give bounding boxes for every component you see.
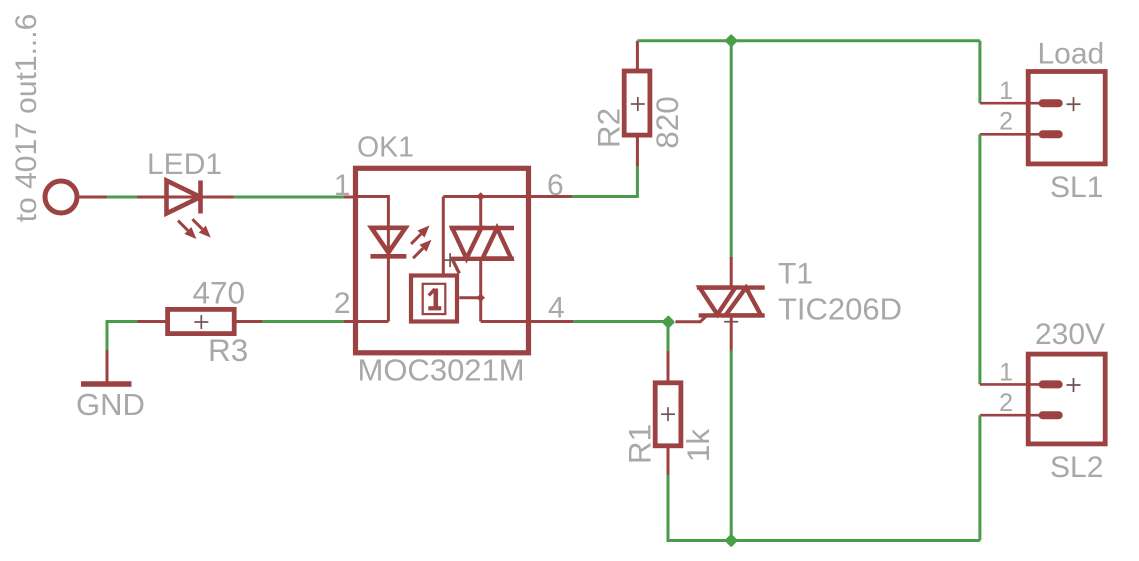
OK1 internal link gate box to junction	[459, 296, 480, 299]
OK1 internal vertical triac bottom to pin4	[479, 259, 482, 322]
OK1 internal vertical dot to triac top	[479, 197, 482, 230]
SL1 origin cross	[1067, 97, 1081, 111]
svg-text:2: 2	[999, 108, 1013, 136]
OK1 internal junction dot top	[476, 192, 484, 200]
SL1 pin2 pad pill	[1039, 130, 1063, 138]
LED1 pin line through symbol	[166, 196, 201, 199]
resistor R1 top pin stub (red)	[667, 351, 670, 383]
svg-text:T1: T1	[778, 258, 813, 291]
OK1 internal pin4 lead	[481, 320, 528, 323]
svg-text:R2: R2	[591, 108, 627, 148]
pin connector circle (input pad)	[45, 181, 77, 213]
svg-text:2: 2	[999, 389, 1013, 417]
svg-text:1: 1	[999, 77, 1013, 105]
SL1 pin1 lead (red)	[980, 102, 1040, 105]
ground symbol bar	[81, 381, 132, 387]
connector SL2 box	[1028, 354, 1105, 444]
resistor R2 body	[624, 71, 650, 135]
diode LED1 triangle	[167, 181, 201, 214]
R3 origin cross	[194, 315, 208, 329]
OK1 internal vertical to gate box	[442, 197, 445, 276]
OK1 internal pin2 lead	[358, 320, 388, 323]
resistor R1 body	[655, 383, 681, 446]
wire SL1 pin2 to SL2 pin1 (green)	[978, 134, 981, 384]
OK1 internal junction dot bottom	[476, 293, 484, 301]
LED1 light arrow 1	[178, 221, 196, 239]
connector SL1 box	[1028, 72, 1105, 164]
OK1 pin6 stub (red)	[528, 195, 574, 198]
resistor R3 right pin stub (red)	[234, 320, 264, 323]
wire junction down to R1 (green)	[667, 322, 670, 354]
LED1 cathode wire to OK1 pin1 (green)	[231, 196, 350, 199]
svg-text:230V: 230V	[1035, 318, 1105, 351]
resistor R2 top pin stub (red)	[636, 41, 639, 71]
ground GND pin stub (red)	[106, 350, 109, 384]
wire top rail (green)	[637, 39, 980, 42]
OK1 internal light arrow 1	[411, 226, 429, 244]
SL2 origin cross	[1067, 378, 1081, 392]
svg-text:LED1: LED1	[147, 148, 222, 181]
svg-text:SL2: SL2	[1050, 451, 1103, 484]
OK1 pin2 stub (red)	[344, 320, 356, 323]
OK1 internal triac right triangle	[483, 228, 512, 259]
svg-text:Load: Load	[1038, 38, 1105, 71]
LED1 light arrow 2	[192, 219, 210, 237]
wire pin6 to R2 (green)	[572, 164, 637, 197]
svg-text:820: 820	[649, 96, 685, 149]
svg-text:1: 1	[999, 359, 1013, 387]
wire pin4 to junction (green)	[573, 320, 670, 323]
OK1 internal light arrow 2	[413, 240, 431, 258]
OK1 internal gate box outer	[411, 276, 457, 322]
SL2 pin2 lead (red)	[980, 414, 1040, 417]
T1 triac bottom bar	[699, 313, 765, 317]
resistor R3 left pin stub (red)	[138, 320, 169, 323]
svg-text:TIC206D: TIC206D	[778, 292, 902, 327]
OK1 internal triac left triangle	[452, 228, 481, 259]
svg-text:2: 2	[334, 287, 351, 320]
OK1 internal LED vertical line	[387, 228, 390, 322]
wire triac bottom to rail (green)	[730, 350, 733, 541]
SL2 pin2 pad pill	[1039, 411, 1063, 419]
wire top rail to SL1 pin1 (green)	[978, 41, 981, 103]
resistor R3 body	[168, 309, 235, 333]
wire GND riser to R3 (green)	[107, 322, 140, 353]
SL2 pin1 lead (red)	[980, 383, 1040, 386]
T1 triac left triangle	[700, 288, 736, 315]
R2 origin cross	[631, 97, 645, 111]
svg-text:4: 4	[548, 292, 565, 325]
OK1 internal gate box inner	[423, 284, 446, 314]
op-amp U1 optocoupler OK1 box	[356, 168, 529, 352]
OK1 pin4 stub (red)	[528, 320, 575, 323]
svg-text:470: 470	[193, 275, 246, 311]
T1 origin cross	[724, 315, 738, 329]
T1 MT1 pin stub (red)	[730, 315, 733, 352]
OK1 internal gate diagonal	[452, 258, 460, 273]
T1 triac right triangle	[726, 288, 762, 316]
svg-text:1k: 1k	[680, 429, 716, 463]
svg-text:R3: R3	[208, 332, 248, 368]
OK1 internal LED cathode bar	[371, 254, 407, 259]
OK1 internal LED triangle	[371, 228, 405, 253]
svg-text:GND: GND	[76, 387, 145, 422]
SL1 pin2 lead (red)	[980, 133, 1040, 136]
SL2 pin1 pad pill	[1039, 380, 1063, 388]
SL1 pin1 pad pill	[1039, 99, 1063, 107]
LED1 anode pin stub (red)	[137, 196, 167, 199]
R1 origin cross	[661, 407, 675, 421]
wire main vertical to triac (green)	[730, 41, 733, 259]
OK1 internal triac bottom bar	[450, 257, 514, 261]
wire R1 to bottom rail (green)	[668, 475, 980, 541]
svg-text:OK1: OK1	[357, 132, 414, 164]
junction top rail	[724, 34, 738, 48]
OK1 internal pin1 lead	[358, 197, 388, 231]
LED1 cathode pin stub (red)	[201, 196, 234, 199]
OK1 pin1 stub (red)	[344, 196, 356, 199]
wire R3 to OK1 pin2 (green)	[262, 320, 350, 323]
resistor R1 bottom pin stub (red)	[667, 446, 670, 477]
wire circle to LED1 (green net segment)	[104, 196, 140, 199]
svg-text:1: 1	[334, 169, 351, 202]
resistor R2 bottom pin stub (red)	[636, 135, 639, 166]
OK1 origin cross	[443, 253, 457, 267]
wire SL2 pin2 to bottom rail (green)	[978, 415, 981, 540]
OK1 internal gate box digit 1	[428, 289, 441, 309]
T1 gate lead (red)	[675, 315, 707, 321]
OK1 internal triac top bar	[450, 226, 514, 230]
transistor T1 triac top bar	[697, 285, 765, 289]
svg-text:to 4017 out1...6: to 4017 out1...6	[10, 14, 43, 223]
junction gate node	[662, 315, 676, 329]
OK1 internal pin6 lead	[443, 195, 528, 198]
pin stub from circle (red)	[80, 196, 108, 199]
LED1 cathode bar	[198, 181, 203, 214]
svg-text:SL1: SL1	[1050, 171, 1103, 204]
svg-text:R1: R1	[622, 424, 658, 464]
triac T1 MT2 pin stub (red)	[730, 257, 733, 288]
junction bottom rail	[724, 534, 738, 548]
svg-text:MOC3021M: MOC3021M	[358, 353, 525, 388]
